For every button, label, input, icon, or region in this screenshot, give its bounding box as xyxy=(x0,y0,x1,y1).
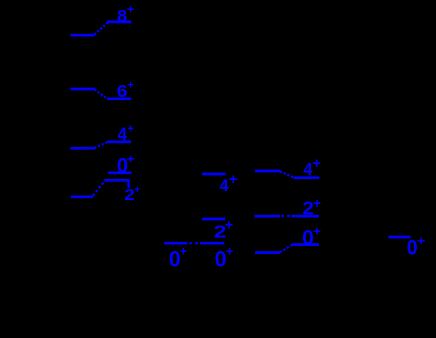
svg-text:8: 8 xyxy=(117,7,127,26)
svg-text:+: + xyxy=(312,156,321,172)
svg-text:6: 6 xyxy=(117,81,128,101)
svg-text:+: + xyxy=(127,3,135,17)
svg-text:+: + xyxy=(313,224,321,239)
svg-text:+: + xyxy=(180,244,187,259)
svg-text:0: 0 xyxy=(169,246,181,271)
svg-text:+: + xyxy=(128,122,134,136)
svg-text:0: 0 xyxy=(215,246,227,271)
svg-text:+: + xyxy=(134,184,140,196)
svg-text:+: + xyxy=(229,172,238,188)
svg-text:4: 4 xyxy=(118,124,128,144)
svg-text:+: + xyxy=(126,152,135,166)
svg-text:+: + xyxy=(225,218,233,234)
svg-text:+: + xyxy=(417,236,426,248)
svg-text:+: + xyxy=(313,196,321,211)
svg-text:+: + xyxy=(226,244,234,259)
svg-text:2: 2 xyxy=(124,187,135,204)
svg-text:+: + xyxy=(128,80,134,92)
